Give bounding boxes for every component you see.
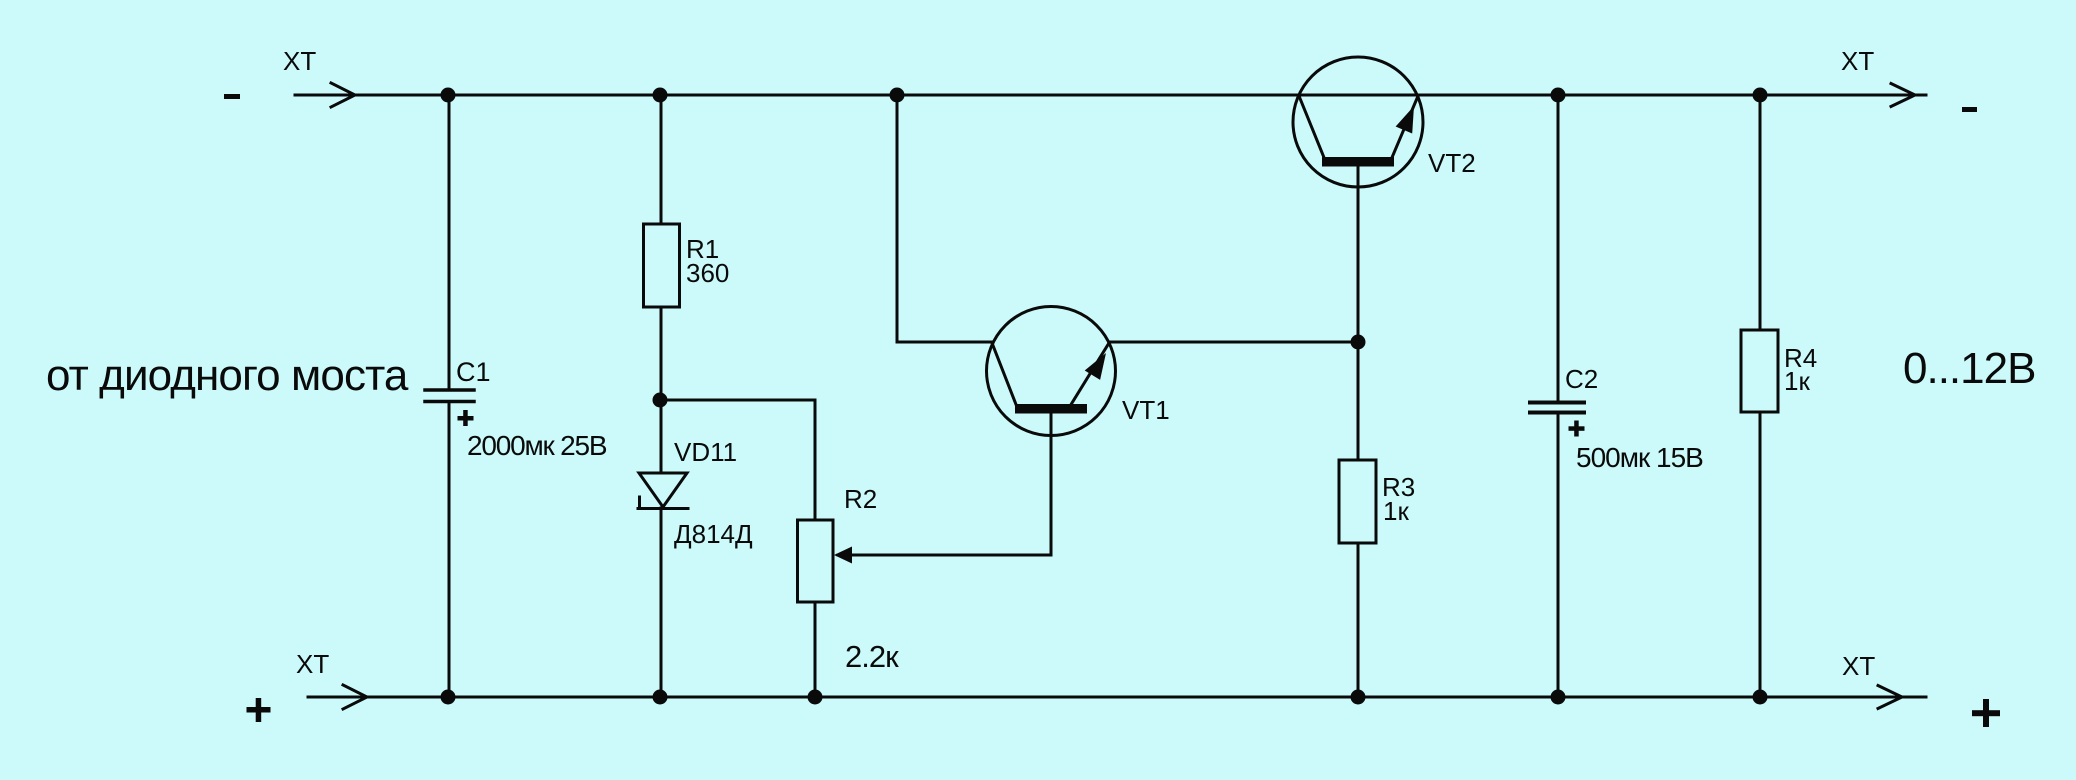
zener diode VD11 cathode bent tick — [638, 497, 641, 508]
wire R2 bottom lead — [814, 602, 817, 697]
junction dot node A — [653, 393, 668, 408]
junction dot bottom rail at C2 — [1551, 690, 1566, 705]
svg-text:1к: 1к — [1784, 366, 1810, 396]
resistor R3 body — [1339, 460, 1376, 543]
svg-text:1к: 1к — [1383, 496, 1409, 526]
polarity minus top-right — [1962, 107, 1977, 112]
wire R1 top lead — [660, 95, 663, 224]
svg-text:500мк 15В: 500мк 15В — [1576, 442, 1703, 473]
svg-text:C2: C2 — [1565, 364, 1598, 394]
wire C1 bottom lead — [448, 402, 451, 697]
potentiometer R2 wiper arrowhead — [834, 547, 852, 564]
connector XT arrow top-left — [331, 83, 355, 107]
svg-text:от диодного моста: от диодного моста — [46, 351, 409, 400]
svg-text:C1: C1 — [456, 357, 491, 387]
transistor VT1 circle — [987, 307, 1116, 436]
capacitor C1 bottom plate — [425, 400, 474, 404]
svg-text:VT1: VT1 — [1122, 395, 1170, 425]
wire VT2 base lead to R3 top — [1357, 166, 1360, 460]
connector XT arrow bottom-right — [1878, 686, 1902, 709]
wire R1 bottom lead to node A — [660, 307, 663, 400]
junction dot top rail at R1 — [653, 88, 668, 103]
junction dot top rail at C1 — [441, 88, 456, 103]
junction dot top rail at VT1 branch — [890, 88, 905, 103]
transistor VT1 emitter diagonal — [1071, 343, 1109, 405]
transistor VT1 base bar — [1015, 404, 1087, 414]
junction dot bottom rail at R2 — [808, 690, 823, 705]
transistor VT1 emitter arrowhead — [1085, 353, 1106, 380]
svg-text:0...12В: 0...12В — [1903, 344, 2035, 393]
svg-text:XT: XT — [1841, 46, 1874, 76]
wire bottom rail (positive bus) — [308, 696, 1926, 699]
zener diode VD11 triangle — [639, 473, 687, 507]
wire VT1 base to R2 wiper — [838, 554, 1051, 557]
junction dot bottom rail at VD11 — [653, 690, 668, 705]
resistor R1 body — [644, 224, 680, 307]
wire VD11 cathode lead — [660, 508, 663, 697]
wire R3 bottom lead — [1357, 543, 1360, 697]
wire R4 top lead — [1759, 95, 1762, 330]
svg-text:VD11: VD11 — [674, 437, 737, 467]
junction dot bottom rail at R4 — [1753, 690, 1768, 705]
transistor VT1 collector diagonal — [992, 343, 1016, 405]
svg-text:360: 360 — [686, 258, 729, 288]
svg-text:XT: XT — [1842, 651, 1875, 681]
connector XT arrow top-right — [1891, 84, 1915, 107]
capacitor C1 plus polarity mark — [458, 416, 474, 421]
resistor R4 body — [1741, 330, 1778, 412]
junction dot bottom rail at R3 — [1351, 690, 1366, 705]
svg-text:XT: XT — [296, 649, 329, 679]
transistor VT2 circle — [1293, 57, 1423, 187]
connector XT arrow bottom-left — [343, 685, 367, 709]
svg-text:VT2: VT2 — [1428, 148, 1476, 178]
svg-text:R2: R2 — [844, 484, 877, 514]
wire VT1 base lead down — [1050, 413, 1053, 555]
svg-text:2000мк 25В: 2000мк 25В — [467, 430, 607, 461]
svg-text:Д814Д: Д814Д — [674, 519, 753, 549]
capacitor C2 top plate — [1530, 401, 1584, 405]
transistor VT2 collector diagonal — [1299, 96, 1324, 158]
wire C1 top lead — [448, 95, 451, 389]
transistor VT2 emitter arrowhead — [1396, 106, 1414, 134]
wire VD11 anode lead — [660, 400, 663, 473]
junction dot top rail at R4 — [1753, 88, 1768, 103]
svg-text:XT: XT — [283, 46, 316, 76]
capacitor C2 bottom plate — [1530, 411, 1584, 415]
transistor VT2 base bar — [1322, 157, 1394, 167]
junction dot top rail at C2 — [1551, 88, 1566, 103]
svg-text:2.2к: 2.2к — [845, 639, 899, 674]
wire R4 bottom lead — [1759, 412, 1762, 697]
wire top rail (negative bus) — [295, 94, 1926, 97]
transistor VT2 emitter diagonal — [1392, 96, 1418, 158]
junction dot node B — [1351, 335, 1366, 350]
junction dot bottom rail at C1 — [441, 690, 456, 705]
wire node A to R2 top — [660, 400, 815, 520]
wire C2 top lead — [1557, 95, 1560, 401]
polarity plus bottom-right — [1972, 710, 2000, 716]
zener diode VD11 cathode bar — [638, 507, 688, 510]
polarity plus bottom-left — [247, 707, 271, 713]
wire top rail to VT1 left terminal — [897, 95, 993, 342]
capacitor C1 top plate — [425, 388, 474, 392]
wire VT1 right terminal to node B — [1109, 341, 1358, 344]
polarity minus top-left — [224, 94, 240, 99]
potentiometer R2 body — [798, 520, 834, 602]
wire C2 bottom lead — [1557, 414, 1560, 697]
capacitor C2 plus polarity mark — [1569, 426, 1585, 431]
